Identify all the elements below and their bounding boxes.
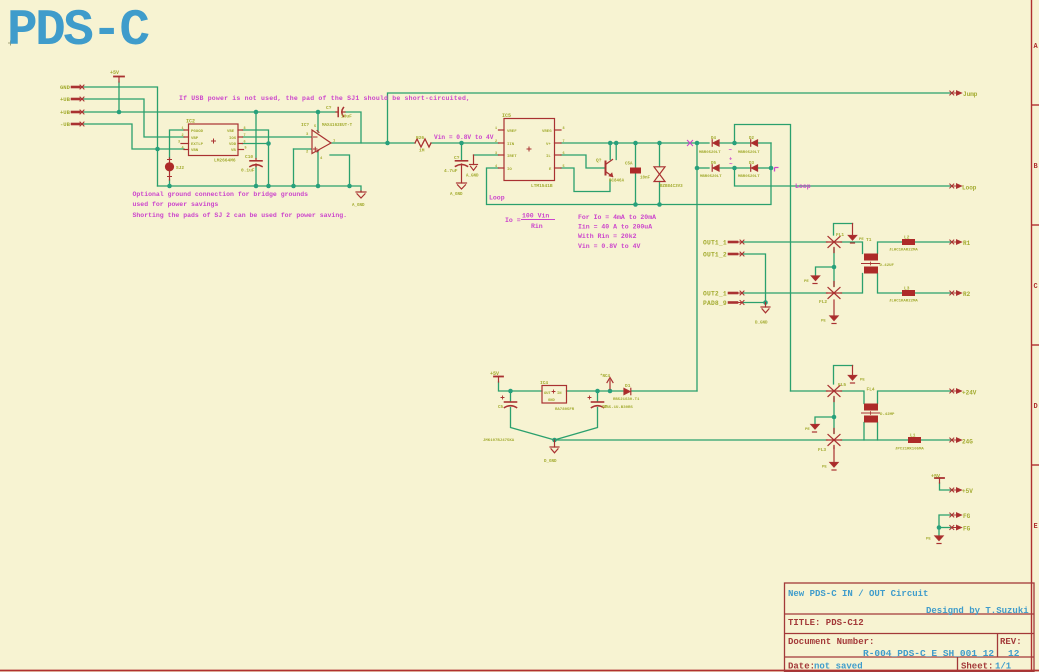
svg-text:VB: VB: [231, 149, 236, 153]
svg-text:5: 5: [563, 165, 565, 169]
svg-text:Jump: Jump: [963, 91, 978, 98]
svg-text:0.1uF: 0.1uF: [241, 168, 255, 174]
svg-text:T1: T1: [866, 237, 872, 243]
svg-text:7: 7: [244, 134, 246, 138]
svg-text:24G: 24G: [962, 439, 973, 446]
svg-text:8: 8: [563, 127, 565, 131]
svg-text:+24V: +24V: [962, 390, 977, 397]
svg-text:JLHC1KAR22MA: JLHC1KAR22MA: [889, 300, 918, 304]
svg-text:PE: PE: [805, 428, 810, 432]
svg-text:JLHC1KAR22MA: JLHC1KAR22MA: [889, 249, 918, 253]
svg-text:IIN: IIN: [507, 143, 515, 147]
svg-text:FL3: FL3: [818, 447, 826, 453]
svg-text:TITLE: PDS-C12: TITLE: PDS-C12: [788, 618, 864, 628]
svg-text:E: E: [1034, 523, 1038, 531]
svg-text:L3: L3: [904, 286, 910, 292]
svg-text:IC2: IC2: [186, 119, 195, 125]
svg-text:Optional ground connection for: Optional ground connection for bridge gr…: [133, 191, 309, 198]
svg-text:RB5-1U-B30RS: RB5-1U-B30RS: [604, 406, 633, 410]
svg-text:Q?: Q?: [596, 158, 602, 164]
svg-text:R1: R1: [963, 240, 971, 247]
svg-text:L2: L2: [904, 235, 910, 241]
svg-text:PE: PE: [859, 238, 864, 242]
svg-text:1/1: 1/1: [995, 662, 1012, 672]
svg-text:~: ~: [729, 161, 733, 168]
svg-text:4: 4: [495, 165, 497, 169]
svg-text:R26: R26: [416, 135, 424, 141]
svg-text:Date:: Date:: [788, 662, 815, 672]
svg-text:Document Number:: Document Number:: [788, 637, 874, 647]
svg-text:Vin = 0.8V to 4V: Vin = 0.8V to 4V: [434, 134, 494, 141]
svg-text:OUT1_2: OUT1_2: [703, 252, 727, 259]
svg-text:JMK107BJ475KA: JMK107BJ475KA: [483, 439, 515, 443]
svg-text:3: 3: [495, 152, 497, 156]
svg-text:Shorting the pads of SJ 2 can: Shorting the pads of SJ 2 can be used fo…: [133, 212, 348, 219]
svg-text:Loop: Loop: [962, 185, 977, 192]
svg-text:D1: D1: [625, 383, 631, 389]
svg-text:D-42UF: D-42UF: [880, 264, 895, 268]
svg-text:IL: IL: [546, 155, 551, 159]
svg-text:A_GND: A_GND: [352, 204, 365, 208]
svg-text:If USB power is not used, the: If USB power is not used, the pad of the…: [179, 95, 470, 102]
svg-text:2: 2: [495, 140, 497, 144]
svg-text:GND: GND: [60, 84, 71, 91]
svg-text:6: 6: [563, 152, 565, 156]
svg-text:PGOOD: PGOOD: [191, 130, 204, 134]
svg-text:IC4: IC4: [540, 380, 548, 386]
svg-text:EXTLP: EXTLP: [191, 143, 204, 147]
svg-text:VBN: VBN: [191, 149, 199, 153]
svg-text:+5V: +5V: [931, 474, 940, 480]
svg-text:PE: PE: [804, 280, 809, 284]
svg-text:MBR0520LT: MBR0520LT: [738, 175, 760, 179]
svg-text:3: 3: [178, 141, 180, 145]
svg-text:Rin: Rin: [531, 223, 543, 230]
svg-text:5: 5: [245, 147, 247, 151]
svg-text:VREF: VREF: [507, 130, 517, 134]
svg-text:RB521S30-T1: RB521S30-T1: [613, 398, 640, 402]
svg-text:IO: IO: [507, 168, 512, 172]
svg-text:PE: PE: [821, 320, 826, 324]
svg-text:C10: C10: [245, 154, 253, 160]
svg-text:PE: PE: [860, 379, 865, 383]
svg-text:FL2: FL2: [819, 299, 827, 305]
svg-text:OUT2_1: OUT2_1: [703, 291, 727, 298]
svg-text:New PDS-C IN / OUT Circuit: New PDS-C IN / OUT Circuit: [788, 589, 928, 599]
svg-text:+5V: +5V: [110, 70, 119, 76]
svg-text:Iin = 40 A to 200uA: Iin = 40 A to 200uA: [578, 224, 652, 231]
svg-text:LTM1541B: LTM1541B: [531, 183, 553, 189]
svg-text:10uF: 10uF: [341, 114, 352, 120]
svg-text:D: D: [1034, 403, 1038, 411]
svg-text:A_GND: A_GND: [450, 193, 463, 197]
svg-text:C?: C?: [326, 105, 332, 111]
svg-text:100 Vin: 100 Vin: [522, 213, 549, 220]
svg-text:2: 2: [182, 134, 184, 138]
svg-text:used for power savings: used for power savings: [133, 201, 219, 208]
svg-text:1: 1: [495, 127, 497, 131]
svg-text:Loop: Loop: [489, 195, 505, 202]
svg-text:OUT: OUT: [544, 392, 552, 396]
svg-text:REV:: REV:: [1000, 637, 1022, 647]
svg-text:D2: D2: [749, 137, 755, 141]
svg-text:C5: C5: [498, 406, 504, 410]
svg-text:+5V: +5V: [962, 488, 973, 495]
svg-text:Loop: Loop: [795, 183, 811, 190]
svg-text:JPC21RK105MA: JPC21RK105MA: [895, 448, 924, 452]
svg-text:Io =: Io =: [505, 217, 521, 224]
svg-text:OUT1_1: OUT1_1: [703, 240, 727, 247]
svg-text:D_GND: D_GND: [544, 460, 557, 464]
svg-text:R-004_PDS-C_E_SH_001_12: R-004_PDS-C_E_SH_001_12: [863, 648, 994, 659]
svg-text:6: 6: [244, 141, 246, 145]
svg-text:BC846A: BC846A: [609, 180, 625, 184]
svg-text:BZB84C3V3: BZB84C3V3: [660, 185, 683, 189]
svg-text:not saved: not saved: [814, 662, 863, 672]
svg-text:GND: GND: [548, 399, 556, 403]
svg-text:D3: D3: [749, 162, 755, 166]
svg-text:SJ2: SJ2: [176, 165, 184, 171]
svg-text:7: 7: [563, 140, 565, 144]
svg-text:FG: FG: [963, 526, 971, 533]
svg-text:VBE: VBE: [227, 130, 235, 134]
svg-text:C5A: C5A: [625, 163, 633, 167]
svg-text:VREG: VREG: [542, 130, 552, 134]
svg-text:+5V: +5V: [490, 371, 499, 377]
svg-text:FL1: FL1: [836, 232, 844, 238]
svg-text:10nF: 10nF: [640, 177, 651, 181]
svg-text:VBP: VBP: [191, 137, 199, 141]
svg-text:Vin = 0.8V to 4V: Vin = 0.8V to 4V: [578, 243, 641, 250]
svg-text:C: C: [1034, 283, 1038, 291]
svg-text:PE: PE: [926, 538, 931, 542]
svg-text:FL5: FL5: [838, 382, 846, 388]
svg-text:PE: PE: [822, 466, 827, 470]
svg-text:IC5: IC5: [502, 113, 511, 119]
svg-text:MAX4162EUT-T: MAX4162EUT-T: [322, 124, 353, 128]
svg-text:MBR0520LT: MBR0520LT: [738, 151, 760, 155]
svg-text:*NC4: *NC4: [600, 374, 611, 379]
svg-text:1: 1: [182, 127, 184, 131]
svg-text:A_GND: A_GND: [466, 175, 479, 179]
svg-text:FL4: FL4: [867, 387, 875, 393]
svg-text:D_GND: D_GND: [755, 322, 768, 326]
svg-text:Designd by T.Suzuki: Designd by T.Suzuki: [926, 606, 1029, 616]
svg-text:IOS: IOS: [229, 137, 237, 141]
svg-text:8: 8: [244, 127, 246, 131]
svg-text:With Rin = 20k2: With Rin = 20k2: [578, 233, 637, 240]
svg-text:C7: C7: [602, 406, 608, 410]
svg-text:D-42MP: D-42MP: [880, 413, 895, 417]
svg-text:IC?: IC?: [301, 122, 309, 128]
svg-text:4: 4: [182, 147, 184, 151]
svg-text:12: 12: [1008, 648, 1020, 659]
svg-text:LM2664M6: LM2664M6: [214, 158, 236, 164]
svg-text:L1: L1: [910, 433, 916, 439]
svg-text:PAD8_9: PAD8_9: [703, 300, 727, 307]
svg-text:~: ~: [729, 147, 733, 154]
svg-text:-UB: -UB: [60, 121, 71, 128]
svg-text:+UB: +UB: [60, 109, 71, 116]
svg-text:VDD: VDD: [229, 143, 237, 147]
svg-text:For Io = 4mA to 20mA: For Io = 4mA to 20mA: [578, 214, 656, 221]
svg-text:1M: 1M: [419, 148, 425, 154]
svg-text:FG: FG: [963, 513, 971, 520]
svg-text:+UB: +UB: [60, 96, 71, 103]
svg-text:D5: D5: [711, 162, 717, 166]
svg-text:MBR0520LT: MBR0520LT: [700, 175, 722, 179]
svg-text:4.7uF: 4.7uF: [444, 168, 458, 174]
svg-text:R2: R2: [963, 291, 971, 298]
svg-text:V+: V+: [546, 143, 551, 147]
svg-text:C?: C?: [454, 155, 460, 161]
svg-text:PDS-C: PDS-C: [7, 3, 149, 60]
svg-text:RA7805FR: RA7805FR: [555, 408, 575, 412]
svg-text:D4: D4: [711, 137, 717, 141]
svg-text:IN: IN: [557, 392, 562, 396]
svg-text:Sheet:: Sheet:: [961, 662, 993, 672]
svg-text:MBR0520LT: MBR0520LT: [699, 151, 721, 155]
svg-text:IRET: IRET: [507, 155, 517, 159]
